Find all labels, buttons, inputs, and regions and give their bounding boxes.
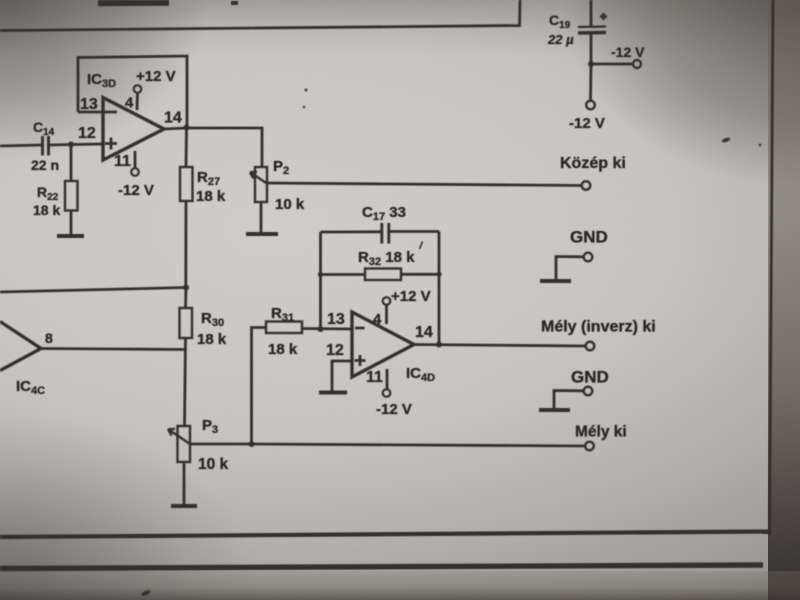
wire node G down to -12V lower terminal xyxy=(589,64,592,100)
potentiometer P3 body xyxy=(178,426,191,462)
wire R30 to P3 xyxy=(185,338,186,426)
label C19 xyxy=(549,12,571,31)
wire GND upper xyxy=(556,257,584,281)
node B junction dot (output/R27) xyxy=(184,125,190,131)
terminal -12V lower xyxy=(586,101,595,110)
label GND lower xyxy=(571,368,609,387)
wire node D up to R31 xyxy=(252,328,267,445)
resistor R31 xyxy=(266,322,302,334)
label 10 k (P3) xyxy=(198,456,229,473)
label Mely (inverz) ki xyxy=(541,319,656,336)
resistor R27 xyxy=(180,167,193,201)
wire P2 wiper to Kozep ki xyxy=(267,183,582,186)
paper speck 2 xyxy=(141,589,152,597)
label GND upper xyxy=(570,228,608,247)
node D junction dot xyxy=(249,441,255,447)
paper speck 1 xyxy=(721,137,731,144)
wire pin 12 to ground xyxy=(332,361,352,391)
pin 4 label xyxy=(125,95,134,112)
label R27 xyxy=(197,169,220,188)
wire GND lower xyxy=(554,391,584,410)
frame bottom line xyxy=(0,532,769,538)
ground bar (GND lower) xyxy=(539,408,570,412)
wire P2 to ground xyxy=(260,202,263,233)
op-amp U:IC3D package box xyxy=(78,56,187,126)
wire top to C19 xyxy=(590,0,593,26)
label IC4D xyxy=(406,365,435,384)
terminal GND lower xyxy=(584,387,593,396)
wire node G to -12V right terminal xyxy=(591,63,633,66)
label C14 xyxy=(33,119,55,138)
node G junction dot xyxy=(588,61,594,67)
label -12 V right xyxy=(611,44,645,60)
wire R32 to right branch xyxy=(401,273,439,276)
label R31 xyxy=(271,305,294,324)
op-amp IC4D plus input mark xyxy=(355,355,366,366)
terminal Mely ki xyxy=(585,442,594,451)
wire R31 to pin 13 (node E) xyxy=(302,327,352,330)
wire feedback left branch xyxy=(319,232,322,329)
terminal -12V right xyxy=(633,60,641,68)
ground bar (GND upper) xyxy=(540,279,571,283)
wire feedback bottom branch to R32 xyxy=(321,273,366,276)
paper speck 3 xyxy=(231,1,238,5)
pin 11 (V-) wire and terminal xyxy=(131,151,139,176)
wire bus from left (IC4C stage) xyxy=(0,288,186,293)
pin 13 label xyxy=(80,96,98,113)
label -12 V (IC3D) xyxy=(118,182,154,199)
pin 13 label (IC4D) xyxy=(327,311,345,328)
op-amp U:IC3D triangle xyxy=(103,98,164,161)
wire R22 to ground xyxy=(70,211,73,236)
label R22 xyxy=(37,184,59,203)
ground (R22) xyxy=(57,234,84,238)
wire R27 to bus node C xyxy=(184,201,187,288)
label IC3D xyxy=(87,71,116,90)
wire input to C14 xyxy=(0,145,41,146)
ground (IC4D pin 12) xyxy=(319,391,347,395)
junction dot feedback right corner xyxy=(436,272,441,277)
wire P3 to ground xyxy=(183,462,186,505)
wire feedback right branch down to output xyxy=(438,232,441,345)
page bottom edge bar xyxy=(0,565,763,569)
potentiometer P2 body xyxy=(255,167,267,202)
terminal GND upper xyxy=(584,253,593,262)
wire node D to Mely ki xyxy=(252,444,586,446)
label +12 V (IC3D) xyxy=(136,68,176,85)
pin 4 label (IC4D) xyxy=(373,311,382,328)
label 22 n xyxy=(31,157,59,173)
resistor R30 xyxy=(180,308,193,338)
potentiometer P2 wiper arrow xyxy=(250,172,267,184)
wire node A to R22 xyxy=(70,145,73,182)
capacitor C17 xyxy=(382,223,389,244)
stray pen tick above R32 label xyxy=(420,242,423,250)
wire C19 to node G xyxy=(590,34,593,64)
label 18 k (R22) xyxy=(33,202,60,218)
resistor R32 xyxy=(365,269,401,281)
label Mely ki xyxy=(575,424,627,441)
label IC4C xyxy=(16,378,45,397)
label P2 xyxy=(273,158,289,177)
paper speck 5 xyxy=(303,106,306,109)
label 18 k (R30) xyxy=(197,331,227,348)
label R32 18 k xyxy=(358,249,415,268)
top black bar (page header mark) xyxy=(98,0,169,6)
paper speck 6 xyxy=(759,144,762,147)
op-amp IC3D plus input mark xyxy=(105,138,117,150)
pin 11 label (IC4D) xyxy=(366,369,383,386)
label R30 xyxy=(201,310,224,329)
pin 8 label xyxy=(45,330,53,346)
wire node C to R30 xyxy=(184,288,187,308)
potentiometer P3 wiper arrow xyxy=(168,429,190,444)
capacitor C14 xyxy=(43,136,49,156)
node A junction dot xyxy=(68,142,74,148)
wire P3 wiper to node D xyxy=(190,443,251,446)
pin 4 (V+) wire and terminal xyxy=(134,85,142,110)
terminal Mely (inverz) ki xyxy=(586,342,595,351)
op-amp IC3D minus input mark xyxy=(78,111,117,114)
wire top-left supply rail xyxy=(0,0,520,31)
pin 11 wire and terminal (IC4D) xyxy=(383,369,391,397)
paper speck 4 xyxy=(305,89,308,92)
wire IC4D output to Mely inverz ki xyxy=(414,345,585,347)
op-amp IC4D minus input mark xyxy=(355,327,365,330)
wire IC3D output pin14 xyxy=(164,128,262,167)
label -12 V (IC4D) xyxy=(376,401,412,418)
ground (P2) xyxy=(246,232,278,236)
ground (P3) xyxy=(171,504,197,508)
junction dot feedback left corner xyxy=(318,272,323,277)
wire C14 to node A xyxy=(49,144,103,145)
pin 12 label (IC4D) xyxy=(326,342,344,359)
label Kozep ki xyxy=(560,155,626,172)
node F junction dot (output/feedback) xyxy=(436,342,442,348)
label +12 V (IC4D) xyxy=(391,288,431,305)
node C junction dot xyxy=(183,285,189,291)
terminal Kozep ki xyxy=(582,181,591,190)
resistor R22 xyxy=(65,181,78,211)
op-amp U:IC4D triangle xyxy=(352,312,414,377)
node E junction dot xyxy=(318,326,324,332)
C19 plus mark xyxy=(600,13,607,20)
pin 12 label xyxy=(78,125,96,142)
wire C17 to right branch xyxy=(390,230,440,233)
op-amp U:IC4C triangle (partial) xyxy=(0,322,41,371)
label 10 k (P2) xyxy=(275,196,305,213)
pin 14 label (IC4D) xyxy=(415,324,433,341)
frame right border xyxy=(770,0,774,535)
pin 14 label xyxy=(164,110,182,127)
capacitor C19 (electrolytic) xyxy=(578,27,606,34)
label 18 k (R31) xyxy=(268,341,298,358)
wire node B down to R27 xyxy=(185,128,188,167)
label P3 xyxy=(202,417,218,436)
wire IC4C output to vertical xyxy=(41,349,185,350)
label -12 V lower xyxy=(569,115,605,132)
label C17 33 xyxy=(362,204,406,223)
label 22u xyxy=(547,32,574,47)
label 18 k (R27) xyxy=(196,188,226,205)
pin 4 (V+) terminal and wire (IC4D) xyxy=(383,297,391,324)
wire feedback top branch to C17 xyxy=(321,230,382,233)
pin 11 label xyxy=(114,153,131,170)
